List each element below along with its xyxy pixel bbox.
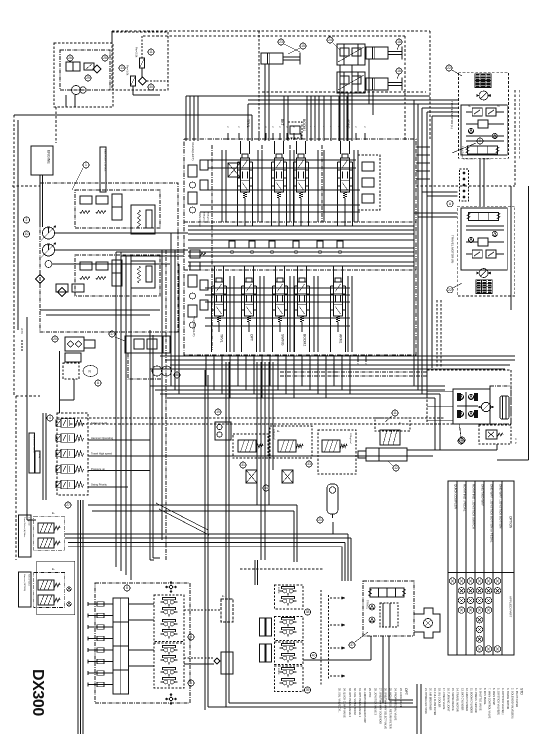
spool OPT lower bank [245,282,254,316]
last guard relief valve [238,440,256,452]
valve spool through lines lower [214,266,216,282]
svg-text:DX300: DX300 [29,669,46,716]
valve dash-dot partitions [184,221,416,223]
svg-text:APPLIED PART: APPLIED PART [509,596,513,617]
dashed box boom holding E [375,418,410,431]
circled 3 swing [459,437,465,443]
wire arm cyl feeds [368,59,370,104]
svg-text:9. SHUTTLE VALVE: 9. SHUTTLE VALVE [479,688,482,711]
dashed box swing motor [427,370,511,424]
pilot pump P3 [45,261,52,268]
wire long dashed y186 right [416,185,515,187]
circled 11 boom block [392,410,398,416]
dashed enclosure: pilot/fan pump group [54,43,113,107]
svg-text:TRVL: TRVL [220,334,224,343]
travel motor L motor circle [479,91,488,100]
dashed box 5-solenoid assembly [57,413,88,495]
wire pair y505-511 [88,504,297,506]
wire right edge vertical [528,186,530,460]
wire dashed y92 under cylinders [262,91,426,93]
svg-text:350kgf/cm²: 350kgf/cm² [207,212,210,223]
wire swing feed turns [413,310,415,386]
RCV pilot unit [164,610,168,614]
svg-text:ONE-WAY : JOYSTICK BOTTON: ONE-WAY : JOYSTICK BOTTON [498,484,502,528]
circled 2 [23,217,29,223]
valve internal gallery lines [188,225,414,227]
RCV right box 3 [275,642,304,665]
wire right edge return to swing [497,459,529,461]
orifice xbox 2 [282,470,293,483]
wire fan group stubs [65,95,67,107]
RCV pilot unit [164,670,168,674]
circled 15 [300,43,306,49]
solenoid valve SOL2 [61,434,75,443]
bucket cylinder lower [366,78,388,90]
wire center drop bundle x257-273 [256,362,258,505]
wire rcv to E3 dashes [184,609,221,611]
wire long horizontal y96 [186,95,430,97]
svg-text:E-: E- [277,429,280,433]
svg-text:19. FULL FLOW FILTER: 19. FULL FLOW FILTER [433,688,436,715]
svg-text:Hammer (OPTION): Hammer (OPTION) [23,574,25,592]
travel motor R brake valve box [461,208,507,270]
svg-text:28: 28 [103,56,107,60]
wire pump compartment bottom [40,309,160,311]
orifice xbox 1 [246,470,257,483]
wire cylinder drops bucket [339,65,341,141]
svg-text:TRAVEL MOTOR (R): TRAVEL MOTOR (R) [451,235,455,263]
travel relief valve [278,440,296,452]
svg-text:Pm=2.5k: Pm=2.5k [135,47,139,58]
svg-text:27: 27 [66,503,70,507]
regulator block upper [75,190,160,228]
svg-text:STD: STD [520,688,524,695]
spool BOOM2 lower bank [298,282,307,316]
circled 1 main pump callout [83,162,89,168]
svg-text:4: 4 [49,416,51,420]
circled 18 [396,39,402,45]
wire long horizontal y115 [14,114,252,116]
svg-text:Select Valve: Select Valve [28,574,31,587]
circled 29 [85,75,91,81]
RCV pilot unit [164,680,168,684]
wire dashed pilot line right drop 2 [404,36,406,140]
accumulator vertical [327,484,338,514]
travel motor R gearbox stripes [476,280,492,294]
svg-text:11: 11 [149,50,153,54]
svg-text:31: 31 [241,463,245,467]
main pump P2 [43,244,55,256]
wire swing drain y450 [407,449,497,451]
option table circled x marks [449,578,455,584]
svg-text:BOOM2: BOOM2 [303,334,307,346]
svg-text:330kgf/cm²: 330kgf/cm² [203,212,206,223]
svg-text:18. OIL COOLER: 18. OIL COOLER [438,688,441,708]
swing device dash-dot extension [128,353,162,379]
svg-text:ENGINE: ENGINE [47,150,51,164]
circled B swing device [174,372,180,378]
cross mark top [173,586,177,588]
circled A travel R [447,201,453,207]
wire x78-82 triple to bottom [77,500,79,734]
label boxes rcv right [260,618,266,636]
check diamond pilot [139,77,147,85]
wire pilot feed down to solenoid stack [59,351,61,413]
travel motor R motor circle [479,269,488,278]
spool TRVL lower bank [215,282,224,316]
negacon relief left column [188,165,197,177]
svg-text:37: 37 [350,643,354,647]
oil filter block lower [131,261,155,288]
svg-text:220kgf/cm²: 220kgf/cm² [273,429,276,440]
svg-text:16. TURNING JOINT: 16. TURNING JOINT [447,688,450,712]
circled 25 swing reducer [458,438,464,444]
boom cylinder [261,53,283,64]
svg-text:(5EA): (5EA) [38,453,41,459]
circled 13 [119,65,125,71]
circled 17 left [109,331,115,337]
label box solenoid assy 2 [35,451,40,473]
suction strainer 1 [36,275,45,284]
wire pedal outputs down [382,636,384,703]
option table column lines [456,481,458,655]
svg-text:33: 33 [307,462,311,466]
circled 33 [306,461,312,467]
svg-text:31. OPT. PEDAL VALVE 1: 31. OPT. PEDAL VALVE 1 [358,688,361,718]
circled 24 [327,37,333,43]
label boxes rcv right 2 [260,644,266,662]
swing gearbox [500,396,509,419]
circled 31 [240,462,246,468]
wire bundle y386-398 [150,385,445,387]
svg-text:34: 34 [264,486,268,490]
pilot filter Pm=2.5k [140,58,145,68]
wire accumulator drop [332,522,334,534]
svg-text:32. SOL. V/V for BOOM: 32. SOL. V/V for BOOM [353,688,356,715]
wire left vertical x27 from pump box [26,317,28,520]
hammer valve 1a [38,523,54,533]
travel L relief cluster [472,108,482,116]
svg-text:BKT: BKT [280,119,284,126]
svg-text:38: 38 [306,610,310,614]
note box main pump [100,147,106,192]
pedal valve spool horizontal [370,588,404,597]
circled A rcv2 [188,680,194,686]
boom holding hatch valve [380,430,400,445]
svg-text:SWING: SWING [281,334,285,346]
wire hammer bundle turn down to pedal [347,534,349,581]
svg-text:33. OPT. PEDAL VALVE 2: 33. OPT. PEDAL VALVE 2 [348,688,351,718]
svg-text:18: 18 [397,40,401,44]
pedal check valve 2 [369,617,375,623]
wire engine shaft [39,175,41,227]
valve spool through lines upper [240,141,242,154]
svg-text:MODE: MODE [277,668,279,675]
wire RCV left feeds [129,603,155,605]
svg-text:10: 10 [25,232,29,236]
valve bottom port stubs [205,355,207,362]
svg-text:17. CHECK VALVE: 17. CHECK VALVE [442,688,445,710]
svg-text:8. RCV PEDAL: 8. RCV PEDAL [483,688,486,706]
suction strainer 2 [58,288,67,297]
svg-text:20. AIR BREATHER: 20. AIR BREATHER [428,688,431,711]
svg-text:E-: E- [222,594,225,598]
valve bottom comb drops [205,362,207,386]
wire dashed left drop from pilot box [111,31,113,43]
travel motor L gearbox stripes [475,74,491,88]
ENGINE box [31,146,53,175]
svg-text:13: 13 [120,66,124,70]
svg-text:17: 17 [110,332,114,336]
boom priority sub valve [288,122,302,138]
cross mark bottom [173,698,177,700]
circled 10 gauge [23,231,29,237]
svg-text:ROTATING : JOYSTICK SWITCH: ROTATING : JOYSTICK SWITCH [471,484,475,529]
regulator block lower [75,255,160,296]
circled 23 [278,39,284,45]
svg-text:20: 20 [53,337,57,341]
svg-text:23: 23 [279,40,283,44]
bucket holding valve block 2 [337,72,365,93]
swing reducer small valve [479,425,511,444]
svg-text:11. BOOM CYLINDER: 11. BOOM CYLINDER [469,688,472,713]
wire dash-dot pilots to swing [280,371,427,373]
RCV right box 1 [275,585,304,609]
svg-text:12. ARM CYLINDER: 12. ARM CYLINDER [465,688,468,711]
svg-text:12: 12 [394,466,398,470]
valve inter-spool rails lower [229,276,231,352]
wire pump delivery lines [55,232,189,234]
wire travel bundle verticals [413,100,415,310]
wire verticals into valve top left [185,96,187,141]
load check valves row [229,241,235,248]
solenoid valve SOL1 [61,419,75,428]
svg-text:MAIN RELIEF: MAIN RELIEF [198,212,201,228]
pilot check valve right [322,440,340,452]
wire tank return bundle y356-369 [160,355,515,357]
svg-text:QUICK COUPLER: QUICK COUPLER [453,484,457,510]
travel R relief cluster [472,250,482,258]
dashed box E travel relief [270,426,312,458]
svg-text:25: 25 [459,439,463,443]
RCV pilot dashed box 2 [154,643,184,688]
swing valve body [453,389,490,424]
fan check diamond [93,65,101,73]
wire right column vertical x511 [510,186,512,310]
circled 34 [263,485,269,491]
circled B rcv1 [188,634,194,640]
circled 19 [215,409,221,415]
svg-text:OPTION: OPTION [509,516,513,529]
hammer valve 1b [38,538,54,548]
svg-text:29. PTO: 29. PTO [368,688,371,697]
dash-dot outline main control valve [184,139,416,355]
bucket holding valve block [337,44,365,65]
circled 39 [304,687,310,693]
wire verticals x248-252 [247,104,249,141]
wire rcv right top feeds [254,560,256,585]
arm cylinder upper [366,47,388,59]
svg-text:35. SOL. VALVE CYL.: 35. SOL. VALVE CYL. [338,688,341,713]
wire x162 x166 verticals [161,250,163,540]
circled 30 [148,84,154,90]
circled 9 with leader [477,138,483,144]
valve top comb verticals [306,96,308,141]
circled 26 [67,55,73,61]
spool BOOM1 upper bank [297,158,306,192]
circled 22 travel R [447,287,453,293]
dash-dot inner box fan valve [60,50,110,90]
spool ARM2 upper bank [341,158,350,192]
valve right edge stubs [416,146,430,148]
svg-text:MAIN PUMP 2-SPOOL: MAIN PUMP 2-SPOOL [104,149,107,172]
spool TRVL upper bank [241,158,250,192]
circled 22 travel L [446,65,452,71]
pedal circle [424,619,433,628]
svg-text:13. BKT CYLINDER: 13. BKT CYLINDER [460,688,463,711]
svg-text:22: 22 [447,66,451,70]
svg-text:21. HYDRAULIC TANK: 21. HYDRAULIC TANK [424,688,427,714]
wire pilot filter drops [141,36,143,58]
svg-text:27. ONE/TWO-WAY SOLENOID: 27. ONE/TWO-WAY SOLENOID [378,688,381,724]
wire left dashed box corner [15,396,17,560]
svg-text:24: 24 [328,38,332,42]
wire bundle into swing [434,398,436,430]
valve inter-spool horizontals upper [208,159,356,161]
svg-text:15. SWING DEVICE: 15. SWING DEVICE [451,688,454,711]
wire dashed right column [514,90,516,186]
svg-text:E-: E- [52,567,55,571]
wire long horizontal y104 [248,103,432,105]
svg-text:VALVE(LEFT): VALVE(LEFT) [191,142,195,161]
wire diagonal pair [156,503,208,530]
wire left edge verticals [13,115,15,396]
circled 40 [310,652,316,658]
dashed box pilot filters [112,32,168,90]
svg-text:Safety Cut-off: Safety Cut-off [91,421,107,425]
RCV pilot dashed box 1 [154,595,184,642]
svg-text:6. MAIN PUMP: 6. MAIN PUMP [492,688,495,705]
wire dashed verticals travel-swing [436,300,438,368]
svg-text:4. JOYSTICK VALVE(L): 4. JOYSTICK VALVE(L) [501,688,504,715]
wire x205-208 drop to RCV [204,370,206,710]
center joint block [460,169,469,201]
swing device block [125,336,170,353]
svg-text:TRAVEL: TRAVEL [366,600,369,610]
svg-text:30: 30 [149,85,153,89]
wire dashed top boundary 2 [143,35,405,37]
dash-dot box swing right portion [490,386,511,424]
fan control valve [66,62,80,71]
wire swing feeds left [427,391,453,393]
travel L check valves [468,128,473,133]
hammer valve 2b [38,595,54,605]
wire dashed horizontal y569 [240,568,324,570]
wire dashed vertical x259 [258,31,260,141]
svg-text:E-: E- [399,421,402,425]
RCV right box 4 [275,666,304,692]
svg-text:C: C [515,438,517,441]
dashed box travel motor R [457,206,514,296]
travel R check valves [468,237,473,242]
pilot filter Pm=1.0k [131,76,136,86]
svg-text:26. ONE/TWO-WAY SELECT VALVE: 26. ONE/TWO-WAY SELECT VALVE [384,688,387,729]
label box hammer sel 2 [18,572,31,607]
RCV pilot unit [164,622,168,626]
svg-text:19: 19 [216,410,220,414]
circled 37 pedal [349,642,355,648]
hammer valve 2a [38,580,54,590]
E-3 box right of rcv [221,599,233,622]
svg-text:ROTATING : PEDAL: ROTATING : PEDAL [462,484,466,512]
svg-text:OPT: OPT [404,688,408,695]
swing internal links [465,392,467,419]
circled 12 [393,465,399,471]
RCV pilot unit [164,632,168,636]
circled 16 [396,68,402,74]
label box two-speed sel 1 [18,515,31,557]
travel motor L brake valve box [461,105,507,155]
main pump P1 [43,227,55,239]
svg-text:220kgf/cm²: 220kgf/cm² [349,433,352,444]
svg-text:1: 1 [85,163,87,167]
swing motor circle [481,402,490,411]
svg-text:8: 8 [126,586,128,590]
svg-text:7. MAIN CONTROL VALVE: 7. MAIN CONTROL VALVE [488,688,491,719]
dash-dot box hammer valve 2 [34,573,65,608]
wire pump feed verticals left of valve [170,233,172,386]
wire long horizontal y100 [248,99,430,101]
dashed box pilot check right [318,430,356,474]
svg-text:21: 21 [318,518,322,522]
svg-text:14. TRAVEL MOTOR: 14. TRAVEL MOTOR [456,688,459,712]
dash-dot box hammer valve 1 [34,516,65,550]
fan relief valve [84,63,94,70]
wire dashed pilot pair y418-424 [57,417,445,419]
wire rcv3 to pedal y660 [303,659,371,661]
svg-text:11: 11 [393,411,397,415]
solenoid valve SOL4 [61,465,75,474]
dash-dot box travel pedal valve [363,581,414,636]
accumulator oval [83,366,98,377]
swing relief cluster bottom [458,411,463,416]
svg-text:ONE-WAY : JOYSTICK BOTTON or P: ONE-WAY : JOYSTICK BOTTON or PEDAL [489,484,493,543]
valve inter-spool rails upper [221,150,223,222]
svg-text:MODE: MODE [277,587,279,594]
circled 38 [304,609,310,615]
svg-text:Hammer Operating: Hammer Operating [91,436,114,440]
wire bottom jog to pedal drains [208,706,417,708]
RCV pilot unit [164,648,168,652]
svg-text:16: 16 [397,69,401,73]
svg-text:2: 2 [26,218,28,222]
svg-text:10. PRESS. SENSOR: 10. PRESS. SENSOR [474,688,477,713]
circled 27 [65,502,71,508]
svg-text:40: 40 [312,654,316,658]
valve inter-spool horizontals lower [205,287,350,289]
RCV pilot unit [164,600,168,604]
svg-text:ONE/TWO-WAY: ONE/TWO-WAY [480,484,484,506]
svg-text:BOOM1: BOOM1 [302,119,306,131]
svg-text:30. ADDITIONAL GEAR PUMP: 30. ADDITIONAL GEAR PUMP [363,688,366,723]
svg-text:26: 26 [68,56,72,60]
pedal bracket [414,608,440,638]
travel L counterbalance spool [467,146,497,154]
wire valve left entry [116,251,184,253]
dashed box travel motor L [459,72,509,158]
wire solenoid outputs [88,439,150,441]
dashed box last guard valve [233,434,268,458]
